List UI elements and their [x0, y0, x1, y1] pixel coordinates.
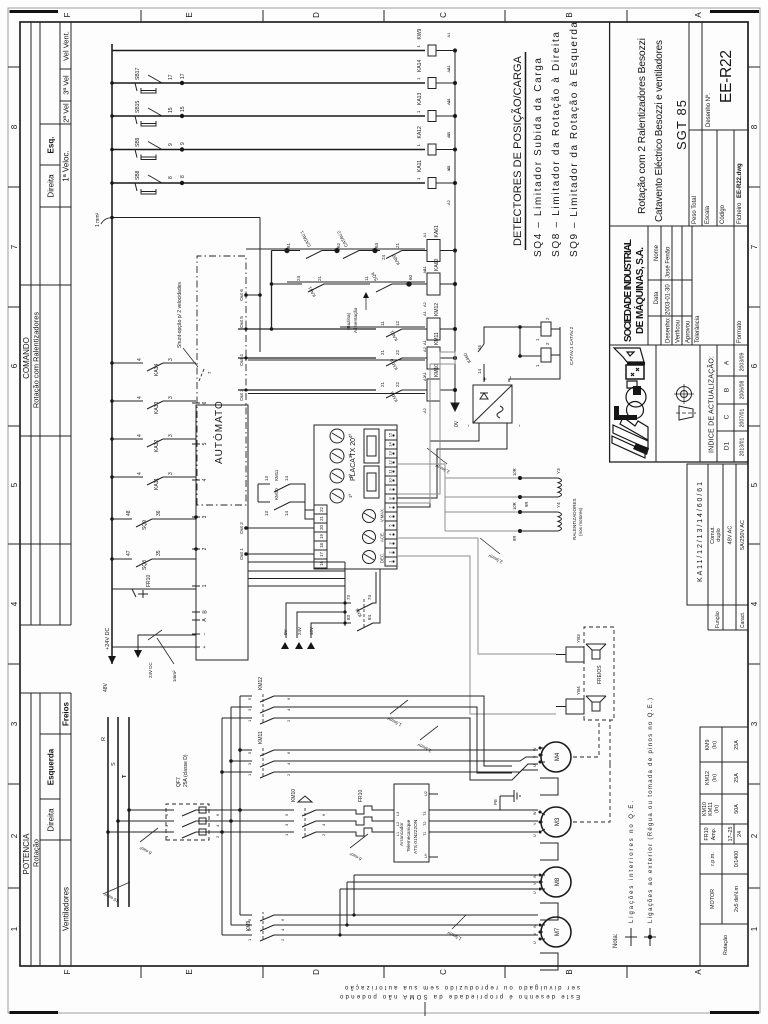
svg-text:SB9: SB9: [135, 137, 141, 147]
svg-text:+: +: [482, 377, 489, 381]
svg-text:Nome: Nome: [654, 244, 660, 261]
svg-text:FR10: FR10: [704, 827, 710, 840]
svg-text:2ª Vel: 2ª Vel: [62, 103, 71, 123]
svg-text:Y3: Y3: [556, 468, 561, 474]
svg-text:4: 4: [750, 601, 759, 606]
svg-text:73: 73: [346, 594, 351, 600]
svg-text:KM12: KM12: [705, 771, 711, 785]
svg-text:0/1400: 0/1400: [734, 851, 740, 868]
svg-text:A: A: [694, 12, 703, 18]
svg-text:KA61: KA61: [434, 225, 440, 237]
svg-text:17–25: 17–25: [728, 827, 734, 842]
svg-text:T2: T2: [423, 822, 427, 826]
svg-text:8: 8: [180, 175, 186, 178]
svg-text:(In): (In): [712, 741, 718, 749]
svg-text:D: D: [312, 969, 321, 975]
svg-text:61: 61: [286, 242, 291, 248]
svg-text:KA12: KA12: [417, 126, 423, 138]
svg-text:48V: 48V: [103, 682, 109, 692]
svg-text:4: 4: [137, 472, 143, 475]
svg-text:25A: 25A: [734, 740, 740, 750]
svg-text:W: W: [533, 924, 537, 928]
svg-text:Telemecanique: Telemecanique: [406, 819, 412, 852]
svg-text:Direita: Direita: [47, 174, 56, 198]
svg-text:Desenho Nº.: Desenho Nº.: [705, 93, 712, 127]
svg-text:(Buzina): (Buzina): [346, 312, 351, 330]
svg-text:Ventiladores: Ventiladores: [62, 887, 71, 931]
svg-text:(In): (In): [714, 805, 720, 813]
svg-text:U: U: [533, 834, 537, 837]
svg-text:5: 5: [202, 442, 208, 445]
svg-text:A1: A1: [446, 97, 451, 103]
svg-text:Aprovou: Aprovou: [686, 321, 692, 343]
svg-text:Função: Função: [715, 611, 721, 628]
svg-text:A: A: [724, 360, 731, 365]
svg-text:W: W: [533, 811, 537, 815]
svg-text:Formato: Formato: [737, 320, 743, 343]
svg-text:KA60: KA60: [434, 259, 440, 271]
svg-text:3: 3: [168, 434, 174, 437]
svg-text:DE MÁQUINAS, S.A.: DE MÁQUINAS, S.A.: [633, 247, 646, 334]
svg-text:5: 5: [10, 482, 19, 487]
svg-text:A2: A2: [422, 301, 427, 307]
svg-text:D: D: [312, 12, 321, 18]
svg-text:84: 84: [367, 614, 372, 620]
svg-text:Vel Vent.: Vel Vent.: [62, 31, 71, 61]
svg-text:S: S: [111, 762, 117, 766]
svg-text:KW9: KW9: [417, 28, 423, 39]
svg-text:Ficheiro: Ficheiro: [737, 202, 743, 224]
svg-text:R: R: [101, 737, 107, 741]
svg-text:1: 1: [750, 926, 759, 931]
svg-text:24: 24: [737, 831, 743, 837]
svg-text:17: 17: [319, 552, 324, 557]
svg-text:PE: PE: [493, 799, 498, 805]
svg-text:M4: M4: [555, 752, 561, 761]
svg-text:16: 16: [319, 561, 324, 566]
svg-text:SQ8 – Limitador da Rotação à D: SQ8 – Limitador da Rotação à Direita: [551, 32, 562, 257]
svg-text:A1: A1: [422, 371, 427, 377]
svg-text:19: 19: [319, 534, 324, 539]
svg-text:63: 63: [374, 242, 379, 248]
svg-text:Desenho:: Desenho:: [666, 317, 672, 343]
svg-text:Escala: Escala: [705, 205, 711, 224]
svg-text:KA11: KA11: [417, 160, 423, 172]
svg-text:3: 3: [202, 515, 208, 518]
svg-text:12: 12: [395, 320, 400, 326]
svg-text:SQ8: SQ8: [142, 560, 148, 570]
svg-text:Out 4: Out 4: [239, 354, 245, 366]
svg-text:8: 8: [10, 124, 19, 129]
svg-text:(nos motores): (nos motores): [578, 507, 583, 536]
svg-text:E: E: [185, 12, 194, 17]
svg-text:7: 7: [10, 244, 19, 249]
svg-text:36: 36: [156, 510, 162, 516]
svg-text:SQ9 – Limitador da Rotação à E: SQ9 – Limitador da Rotação à Esquerda: [569, 22, 580, 257]
svg-text:6: 6: [202, 401, 208, 404]
svg-text:KA13: KA13: [154, 402, 160, 414]
svg-text:DEC.: DEC.: [380, 553, 385, 563]
svg-text:A1: A1: [422, 265, 427, 271]
svg-text:ser divulgado ou reproduzido s: ser divulgado ou reproduzido sem sua aut…: [344, 984, 580, 990]
svg-text:QF7: QF7: [176, 777, 182, 787]
svg-text:8: 8: [750, 124, 759, 129]
svg-text:3: 3: [168, 472, 174, 475]
svg-text:Rotação com 2 Ralentizadores B: Rotação com 2 Ralentizadores Besozzi: [636, 38, 648, 214]
svg-text:1ª: 1ª: [348, 494, 353, 499]
svg-text:Direita: Direita: [47, 808, 56, 832]
svg-text:Alimentação: Alimentação: [353, 307, 358, 333]
svg-text:2ª: 2ª: [348, 474, 353, 479]
svg-text:25A: 25A: [734, 773, 740, 783]
svg-text:18: 18: [319, 543, 324, 548]
svg-text:15: 15: [477, 344, 482, 350]
svg-text:KM9: KM9: [705, 739, 711, 750]
svg-text:KM10: KM10: [274, 488, 279, 500]
svg-text:14: 14: [388, 442, 393, 447]
svg-text:M3: M3: [555, 817, 561, 826]
svg-text:KA11: KA11: [154, 478, 160, 490]
svg-text:B: B: [724, 388, 731, 392]
svg-text:Esquerda: Esquerda: [47, 748, 56, 785]
svg-text:2: 2: [750, 833, 759, 838]
svg-text:Ligações interiores no Q.E.: Ligações interiores no Q.E.: [629, 801, 635, 923]
svg-text:Nota:: Nota:: [613, 933, 619, 948]
svg-text:A1: A1: [446, 64, 451, 70]
svg-text:A: A: [694, 969, 703, 975]
svg-text:Tolerância: Tolerância: [695, 315, 701, 343]
svg-text:duplo: duplo: [716, 528, 722, 541]
svg-text:Out 1: Out 1: [239, 548, 245, 560]
svg-text:W: W: [533, 747, 537, 751]
svg-text:9R: 9R: [524, 502, 529, 507]
svg-text:YB3: YB3: [576, 634, 581, 643]
svg-text:SQ9: SQ9: [142, 520, 148, 530]
svg-text:2007/01: 2007/01: [740, 409, 746, 428]
svg-text:KA14: KA14: [154, 364, 160, 376]
svg-text:10: 10: [388, 478, 393, 483]
svg-text:Esq.: Esq.: [47, 137, 56, 154]
svg-text:A1: A1: [422, 339, 427, 345]
svg-text:F: F: [63, 12, 72, 17]
svg-text:24V DC: 24V DC: [148, 661, 153, 678]
svg-text:2006/08: 2006/08: [740, 381, 746, 400]
svg-text:Rotação: Rotação: [723, 935, 729, 955]
svg-text:2x5 deN.m: 2x5 deN.m: [734, 885, 740, 912]
svg-text:B: B: [565, 12, 574, 17]
svg-text:3: 3: [750, 721, 759, 726]
svg-text:4: 4: [137, 434, 143, 437]
svg-text:15: 15: [388, 432, 393, 437]
svg-text:Shunt-opção p/ 2 velocidade: Shunt-opção p/ 2 velocidades: [177, 282, 183, 348]
svg-text:24: 24: [296, 275, 301, 281]
svg-text:3ª: 3ª: [348, 454, 353, 459]
svg-text:17: 17: [168, 74, 174, 80]
svg-text:1ª Veloc.: 1ª Veloc.: [62, 150, 71, 181]
svg-text:Out 6: Out 6: [239, 289, 245, 301]
svg-text:83: 83: [346, 614, 351, 620]
svg-text:9: 9: [180, 142, 186, 145]
svg-text:+24V DC: +24V DC: [105, 628, 111, 650]
svg-text:Caract.: Caract.: [740, 612, 746, 628]
svg-text:Out 5: Out 5: [239, 316, 245, 328]
svg-text:U2: U2: [424, 791, 428, 796]
svg-text:Out 2: Out 2: [239, 522, 245, 534]
svg-text:60: 60: [408, 274, 413, 280]
svg-text:22: 22: [319, 507, 324, 512]
svg-text:ATS 01N222ON: ATS 01N222ON: [413, 819, 419, 854]
svg-text:~: ~: [466, 424, 471, 427]
svg-text:15: 15: [168, 107, 174, 113]
svg-text:DETECTORES DE POSIÇÃO/CARGA: DETECTORES DE POSIÇÃO/CARGA: [511, 55, 524, 246]
svg-text:C: C: [439, 12, 448, 18]
svg-text:21: 21: [380, 349, 385, 355]
svg-text:U: U: [533, 891, 537, 894]
svg-text:50A: 50A: [734, 804, 740, 814]
svg-text:13: 13: [388, 451, 393, 456]
svg-text:7: 7: [750, 244, 759, 249]
svg-text:M7: M7: [555, 927, 561, 936]
svg-text:2: 2: [10, 833, 19, 838]
svg-text:KA14: KA14: [417, 60, 423, 72]
svg-text:U: U: [533, 941, 537, 944]
svg-text:SB8: SB8: [135, 170, 141, 180]
svg-text:48V AC: 48V AC: [728, 526, 734, 545]
svg-text:COMANDO: COMANDO: [22, 337, 31, 379]
svg-text:KA13: KA13: [417, 93, 423, 105]
svg-text:3: 3: [168, 396, 174, 399]
svg-text:YB4: YB4: [576, 686, 581, 695]
svg-text:9: 9: [168, 143, 174, 146]
svg-text:4: 4: [202, 478, 208, 481]
svg-text:KM10: KM10: [291, 789, 297, 802]
svg-text:U: U: [533, 764, 537, 767]
svg-text:FR10: FR10: [358, 790, 364, 802]
svg-text:U+: U+: [424, 852, 428, 858]
svg-text:KM10: KM10: [434, 364, 440, 377]
svg-text:22: 22: [395, 381, 400, 387]
svg-text:13: 13: [264, 475, 269, 481]
svg-text:15: 15: [180, 106, 186, 112]
svg-text:MOTOR: MOTOR: [710, 889, 716, 909]
svg-text:CATAV.1 CATAV.2: CATAV.1 CATAV.2: [569, 326, 575, 365]
svg-text:Amp.: Amp.: [711, 828, 717, 841]
svg-text:Código: Código: [720, 204, 726, 224]
svg-text:35: 35: [156, 550, 162, 556]
svg-text:W: W: [533, 874, 537, 878]
svg-text:3ª Vel: 3ª Vel: [62, 75, 71, 95]
svg-text:14: 14: [477, 368, 482, 374]
svg-text:14: 14: [284, 475, 289, 481]
svg-text:3: 3: [168, 358, 174, 361]
svg-text:Rotação: Rotação: [32, 839, 41, 867]
svg-text:Freios: Freios: [62, 701, 71, 726]
svg-text:5: 5: [750, 482, 759, 487]
svg-text:SB15: SB15: [135, 101, 141, 113]
svg-text:6: 6: [750, 363, 759, 368]
svg-text:−: −: [202, 632, 208, 635]
svg-text:48: 48: [126, 510, 132, 516]
svg-text:12: 12: [388, 460, 393, 465]
svg-text:24: 24: [381, 254, 386, 260]
svg-text:1mm²: 1mm²: [172, 670, 177, 682]
svg-text:KM11: KM11: [258, 731, 264, 744]
svg-text:A2: A2: [422, 407, 427, 413]
svg-text:4ª: 4ª: [348, 434, 353, 439]
svg-text:B: B: [565, 969, 574, 974]
svg-text:L3: L3: [396, 812, 400, 816]
svg-text:6: 6: [10, 363, 19, 368]
svg-text:Rotação com Ralentizadores: Rotação com Ralentizadores: [32, 312, 41, 409]
svg-text:20: 20: [319, 525, 324, 530]
svg-text:11: 11: [364, 276, 369, 281]
svg-text:8: 8: [168, 176, 174, 179]
svg-text:KM11: KM11: [434, 332, 440, 345]
svg-text:1: 1: [10, 926, 19, 931]
svg-text:L1: L1: [396, 832, 400, 836]
svg-text:21: 21: [380, 381, 385, 387]
svg-text:SOCIEDADE INDUSTRIAL: SOCIEDADE INDUSTRIAL: [623, 239, 634, 342]
svg-text:Catavento Eléctrico Besozzi e: Catavento Eléctrico Besozzi e ventilador…: [654, 40, 665, 222]
svg-text:A2: A2: [446, 199, 451, 205]
svg-text:5A/250V AC: 5A/250V AC: [740, 520, 746, 550]
svg-text:Data: Data: [654, 291, 660, 304]
svg-text:SGT 85: SGT 85: [674, 100, 689, 150]
svg-text:A1: A1: [422, 310, 427, 316]
svg-text:74: 74: [367, 594, 372, 600]
svg-text:3: 3: [10, 721, 19, 726]
svg-text:T3: T3: [423, 812, 427, 816]
svg-text:14: 14: [284, 510, 289, 516]
svg-text:0V: 0V: [454, 420, 460, 427]
svg-text:KM12: KM12: [258, 677, 264, 690]
svg-text:2: 2: [202, 547, 208, 550]
svg-text:José Fenão: José Fenão: [666, 246, 672, 278]
svg-text:4: 4: [10, 601, 19, 606]
svg-text:2003-01-30: 2003-01-30: [666, 284, 672, 315]
svg-text:L2: L2: [396, 822, 400, 826]
svg-text:(In): (In): [712, 774, 718, 782]
svg-text:EE-R22.dwg: EE-R22.dwg: [737, 163, 743, 198]
svg-text:4: 4: [137, 396, 143, 399]
svg-text:Ligações ao exterior (Régua: Ligações ao exterior (Régua ou tomada de…: [648, 698, 654, 923]
svg-text:+: +: [202, 645, 208, 648]
svg-text:KM11: KM11: [274, 469, 279, 481]
svg-text:C: C: [439, 969, 448, 975]
svg-text:9R: 9R: [512, 536, 517, 541]
svg-text:KA12: KA12: [154, 440, 160, 452]
svg-text:A1: A1: [422, 232, 427, 238]
svg-text:Verificou: Verificou: [676, 320, 682, 343]
svg-text:4: 4: [137, 358, 143, 361]
svg-text:17: 17: [180, 73, 186, 79]
svg-text:E: E: [185, 969, 194, 974]
svg-text:22: 22: [395, 349, 400, 355]
svg-text:r.p.m.: r.p.m.: [710, 852, 716, 865]
svg-text:D1: D1: [724, 441, 731, 450]
svg-text:Peso Total: Peso Total: [692, 196, 698, 224]
svg-text:A1: A1: [446, 32, 451, 38]
svg-text:1 mm²: 1 mm²: [95, 213, 101, 228]
svg-text:24V: 24V: [297, 627, 302, 635]
svg-text:~: ~: [517, 424, 522, 427]
svg-text:13: 13: [264, 510, 269, 516]
svg-text:F: F: [63, 969, 72, 974]
svg-text:2003/09: 2003/09: [740, 353, 746, 372]
svg-text:T1: T1: [423, 832, 427, 836]
svg-text:47: 47: [126, 550, 132, 556]
svg-text:ACE.: ACE.: [380, 532, 385, 542]
svg-text:C: C: [724, 414, 731, 419]
svg-text:SB17: SB17: [135, 68, 141, 80]
svg-text:RALENTIZADORES: RALENTIZADORES: [572, 498, 577, 540]
svg-text:1: 1: [202, 584, 208, 587]
svg-text:V.MAX.: V.MAX.: [380, 508, 385, 522]
svg-text:2013/01: 2013/01: [740, 438, 746, 457]
svg-text:21: 21: [317, 275, 322, 281]
svg-text:INDICE DE ACTUALIZAÇÃO:: INDICE DE ACTUALIZAÇÃO:: [707, 356, 716, 453]
svg-text:11: 11: [380, 321, 385, 326]
svg-text:FR10: FR10: [146, 575, 152, 587]
svg-text:A1: A1: [446, 131, 451, 137]
svg-text:Y4: Y4: [556, 502, 561, 508]
svg-text:A2: A2: [422, 346, 427, 352]
svg-text:KM12: KM12: [434, 303, 440, 316]
svg-text:21: 21: [395, 242, 400, 248]
svg-text:25A (classe D): 25A (classe D): [183, 754, 189, 787]
svg-text:EE-R22: EE-R22: [718, 50, 735, 103]
svg-text:21: 21: [319, 516, 324, 521]
svg-text:10R: 10R: [512, 502, 517, 510]
svg-text:M8: M8: [555, 877, 561, 886]
svg-text:A1: A1: [446, 164, 451, 170]
svg-text:POTENCIA: POTENCIA: [22, 833, 31, 875]
svg-text:AUTÓMATO: AUTÓMATO: [212, 400, 225, 464]
svg-text:FREIOS: FREIOS: [597, 665, 603, 684]
svg-text:10R: 10R: [512, 468, 517, 476]
svg-text:62: 62: [336, 242, 341, 248]
